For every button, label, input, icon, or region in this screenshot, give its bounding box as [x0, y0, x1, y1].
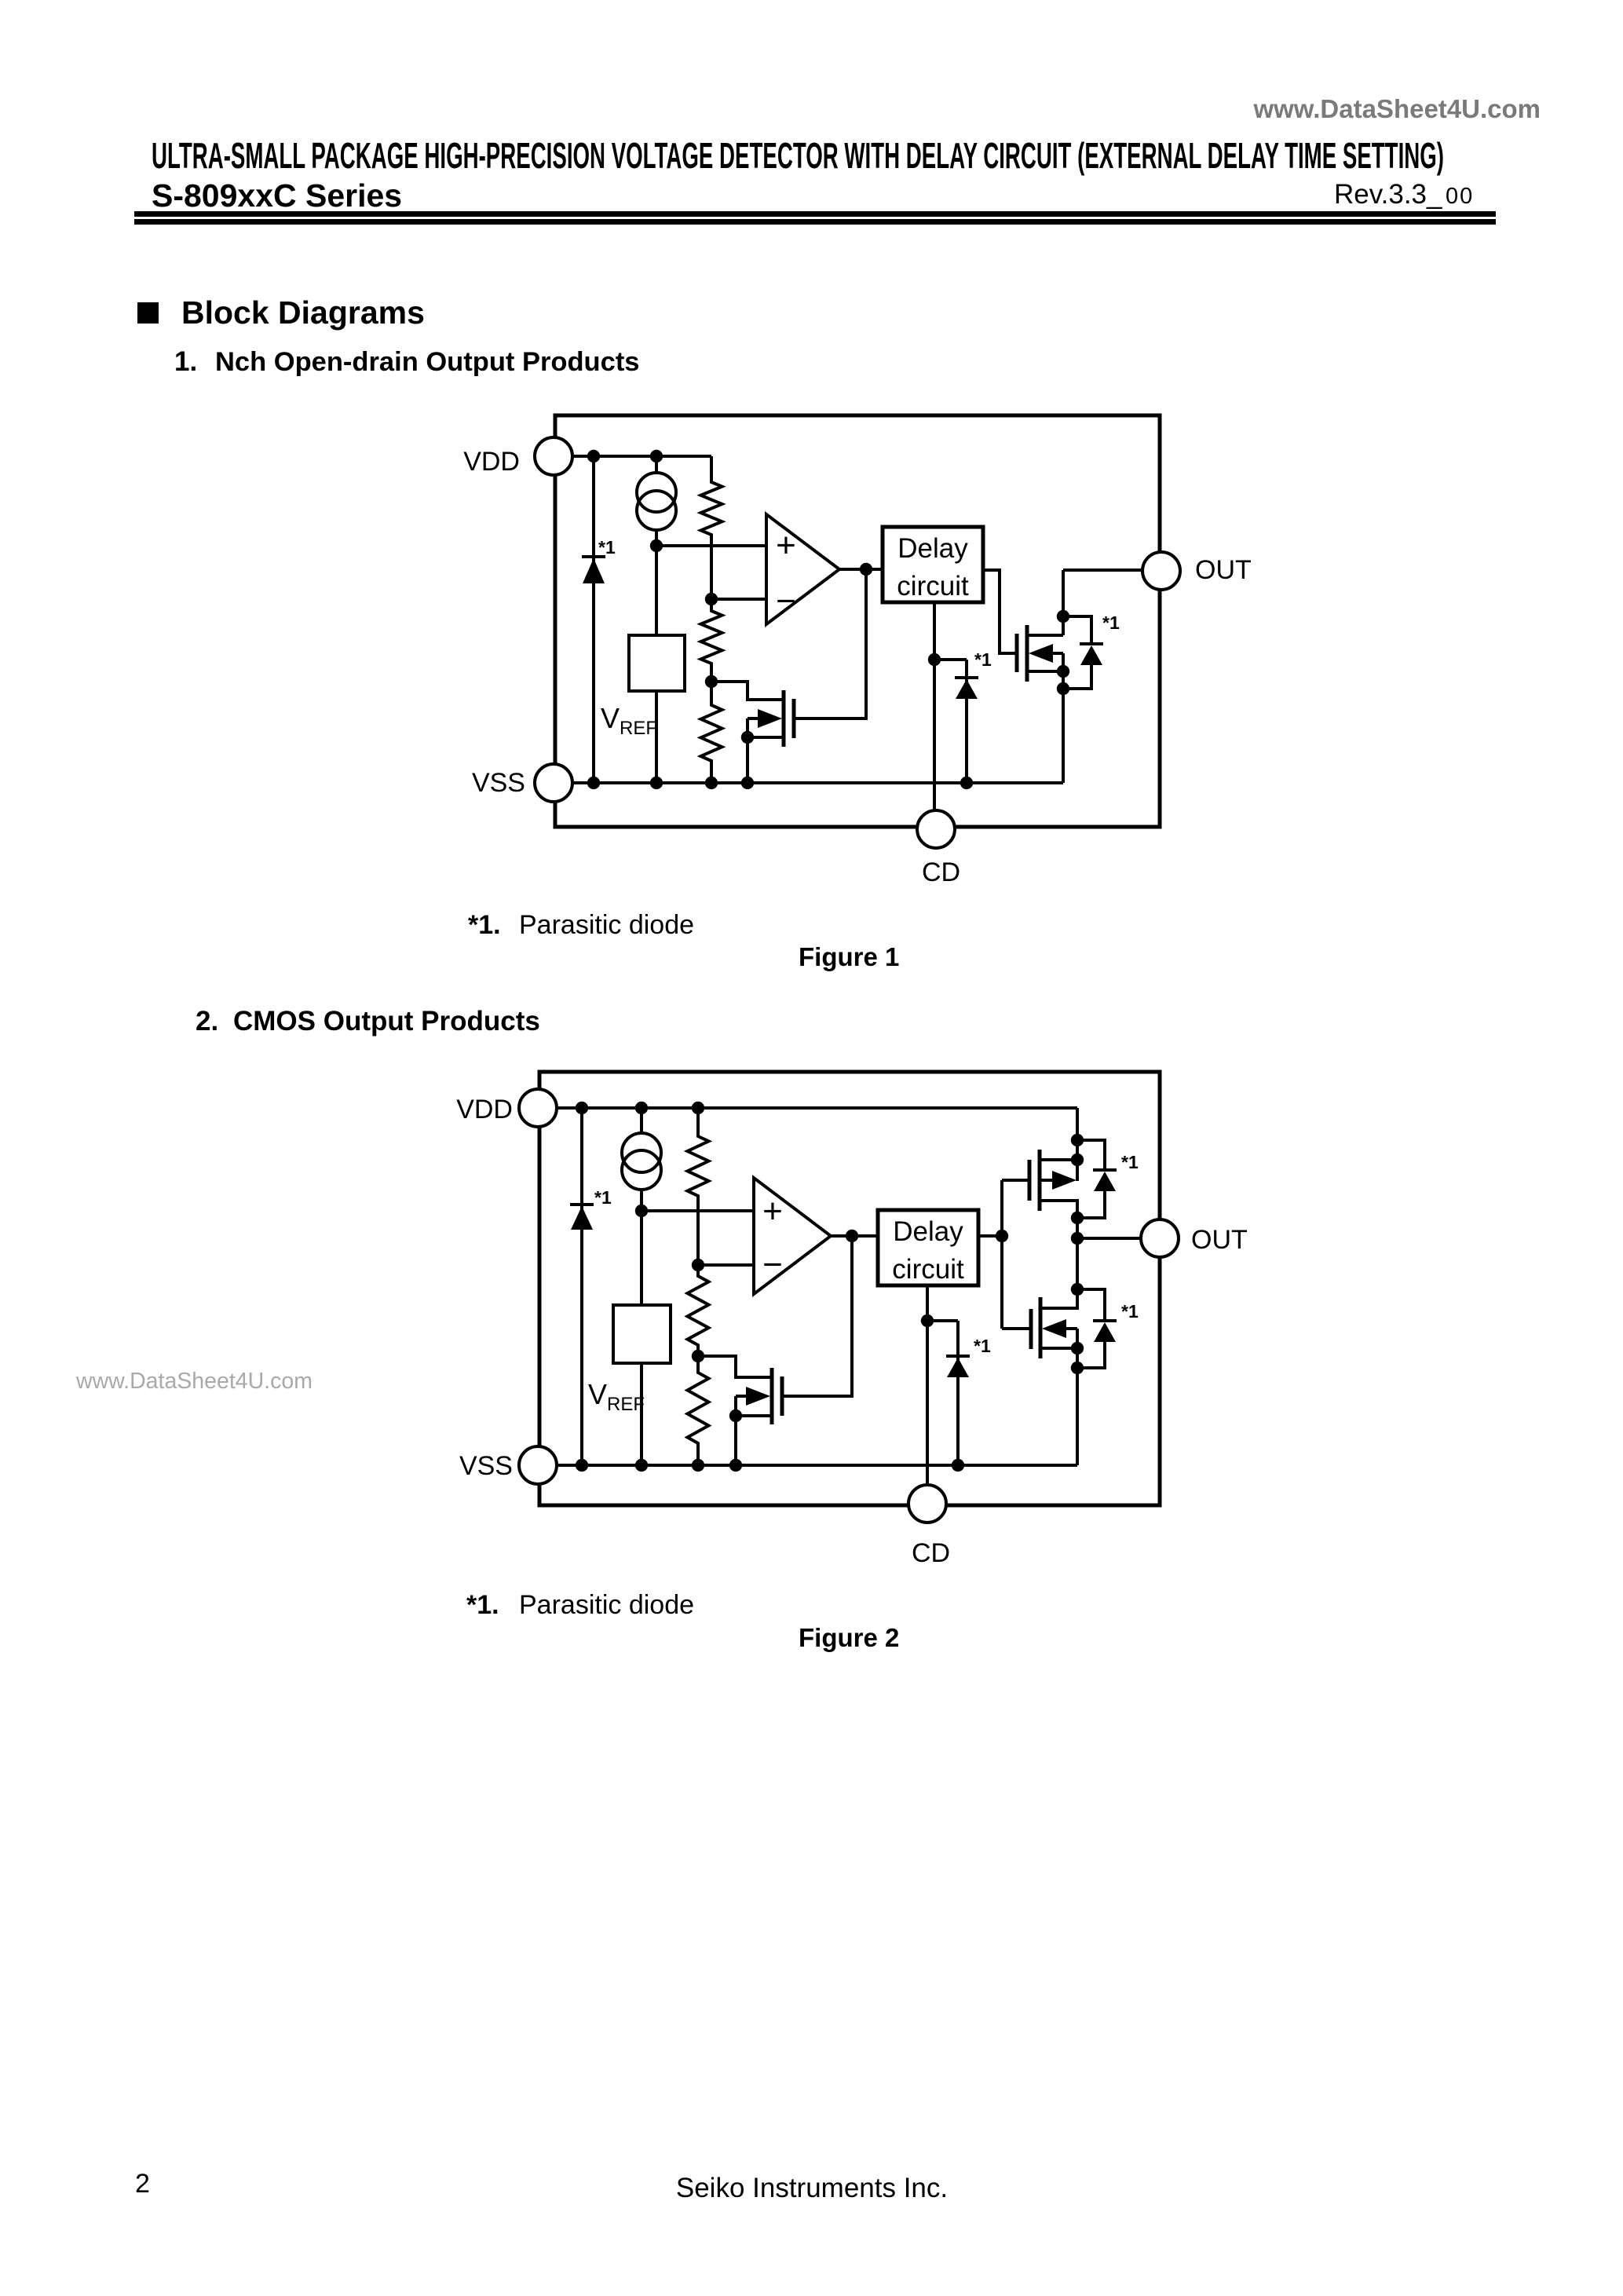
svg-text:OUT: OUT	[1195, 555, 1252, 585]
pin OUT fig2	[1141, 1219, 1179, 1257]
label VSS fig2	[459, 1451, 513, 1481]
svg-text:1.: 1.	[174, 346, 197, 377]
svg-text:2.: 2.	[196, 1006, 218, 1036]
node delay output-gates junction fig2	[996, 1230, 1008, 1242]
pin VSS fig2	[519, 1446, 557, 1484]
diode D6 parasitic (Q4) fig2	[1093, 1170, 1117, 1191]
footer company name	[676, 2173, 948, 2203]
node Q3 source-VSS junction fig2	[729, 1459, 742, 1472]
wire Q1 drain from R2-R3 tap fig1	[711, 682, 782, 700]
label *1 for D4 fig2	[594, 1187, 612, 1208]
wire Q4 parasitic diode branch fig2	[1077, 1140, 1105, 1218]
wire delay output to gates fig2	[978, 1180, 1029, 1329]
transistor Q3 feedback NMOS fig2	[736, 1368, 782, 1465]
svg-text:*1: *1	[1121, 1152, 1139, 1172]
wire delay output to Q2 gate fig1	[983, 570, 1015, 653]
wire delay bottom to CD pin fig2	[926, 1285, 929, 1484]
label VREF fig1	[601, 702, 657, 739]
delay circuit block fig1	[883, 527, 983, 602]
label CD fig2	[912, 1538, 950, 1568]
current source I1 fig1	[637, 473, 676, 530]
node R6-VSS junction fig2	[692, 1459, 704, 1472]
node Q1 source-body tie fig1	[741, 731, 754, 744]
label OUT fig1	[1195, 555, 1252, 585]
node VDD-D1 junction fig1	[587, 450, 600, 462]
svg-text:*1: *1	[594, 1187, 612, 1208]
node Q2 source-diode junction fig1	[1057, 682, 1069, 695]
resistor R3 fig1	[701, 682, 722, 783]
node Q4 source-body tie fig2	[1071, 1153, 1084, 1166]
svg-text:+: +	[776, 526, 796, 565]
node VDD-I2 junction fig2	[635, 1102, 648, 1114]
diode D2 parasitic (CD) fig1	[955, 678, 978, 699]
label *1 for D5 fig2	[974, 1336, 991, 1356]
node R5-R6 tap fig2	[692, 1350, 704, 1362]
label CD fig1	[922, 857, 960, 887]
node R4-R5 tap (minus input) fig2	[692, 1259, 704, 1271]
wire VREF drop fig1	[655, 546, 658, 783]
header revision Rev.3.3_00	[1334, 179, 1474, 210]
svg-text:VDD: VDD	[463, 447, 520, 477]
node VSS-D1 junction fig1	[587, 777, 600, 789]
pin CD fig2	[908, 1485, 946, 1523]
wire Q3 gate from comparator output fig2	[783, 1236, 852, 1396]
svg-text:OUT: OUT	[1191, 1225, 1248, 1255]
IC boundary box figure 2	[539, 1072, 1160, 1505]
footer page number	[135, 2169, 150, 2199]
pin VSS fig1	[535, 764, 572, 802]
label *1 for D2 fig1	[974, 649, 992, 670]
wire Q1 gate from comparator output fig1	[795, 569, 866, 718]
node VDD-R4 junction fig2	[692, 1102, 704, 1114]
label VSS fig1	[472, 768, 525, 798]
wire left diode branch fig1	[592, 456, 595, 783]
node Q1 source-VSS junction fig1	[741, 777, 754, 789]
label *1 for D7 fig2	[1121, 1301, 1139, 1322]
pin VDD fig1	[535, 437, 572, 475]
node Q3 source-body tie fig2	[729, 1409, 742, 1422]
transistor Q1 feedback NMOS fig1	[748, 690, 794, 783]
node VDD-D4 junction fig2	[576, 1102, 588, 1114]
svg-text:V: V	[588, 1378, 607, 1410]
wire VDD rail fig1	[572, 455, 711, 458]
resistor R4 fig2	[688, 1108, 709, 1265]
svg-text:circuit: circuit	[897, 571, 969, 601]
node VDD-I1 junction fig1	[650, 450, 663, 462]
node Q2 drain junction fig1	[1057, 610, 1069, 623]
header title line 1	[152, 135, 1444, 176]
svg-text:www.DataSheet4U.com: www.DataSheet4U.com	[1252, 94, 1541, 123]
op-amp U1 comparator fig1	[766, 514, 839, 624]
wire VREF drop fig2	[640, 1211, 643, 1465]
footnote *1 Parasitic diode (fig1)	[468, 910, 694, 940]
wire VSS rail fig2	[557, 1464, 1077, 1467]
svg-text:+: +	[762, 1192, 783, 1230]
wire comparator output fig2	[831, 1234, 878, 1238]
node R3-VSS junction fig1	[705, 777, 718, 789]
node comparator output junction fig1	[860, 563, 872, 576]
svg-text:VSS: VSS	[459, 1451, 513, 1481]
svg-text:CD: CD	[922, 857, 960, 887]
node Q2 source-body tie fig1	[1057, 665, 1069, 678]
svg-text:S-809xxC Series: S-809xxC Series	[152, 177, 402, 214]
svg-text:Figure 2: Figure 2	[799, 1623, 899, 1652]
node Q4 drain junction fig2	[1071, 1212, 1084, 1224]
wire Q5 parasitic diode branch fig2	[1077, 1289, 1105, 1368]
caption Figure 1	[799, 942, 899, 971]
svg-text:Seiko Instruments Inc.: Seiko Instruments Inc.	[676, 2173, 948, 2203]
node Q5 source-diode junction fig2	[1071, 1362, 1084, 1374]
label *1 for D3 fig1	[1102, 612, 1120, 633]
label VDD fig1	[463, 447, 520, 477]
resistor R1 fig1	[701, 456, 722, 599]
svg-text:Delay: Delay	[893, 1216, 963, 1247]
wire minus input fig1	[711, 598, 766, 601]
node D5-VSS junction fig2	[952, 1459, 964, 1472]
wire VSS rail fig1	[572, 781, 1063, 784]
svg-text:Block Diagrams: Block Diagrams	[181, 294, 425, 331]
node VREF-VSS junction fig2	[635, 1459, 648, 1472]
label VDD fig2	[456, 1095, 513, 1124]
resistor R5 fig2	[688, 1265, 709, 1356]
svg-text:www.DataSheet4U.com: www.DataSheet4U.com	[75, 1369, 313, 1394]
svg-text:CD: CD	[912, 1538, 950, 1568]
wire OUT node vertical fig2	[1076, 1218, 1079, 1289]
wire Q2 parasitic diode branch fig1	[1063, 616, 1091, 689]
svg-text:Rev.3.3_: Rev.3.3_	[1334, 179, 1442, 210]
node delay-CD junction fig2	[921, 1314, 934, 1327]
node comparator output junction fig2	[846, 1230, 858, 1242]
svg-text:REF: REF	[607, 1394, 645, 1415]
resistor R6 fig2	[688, 1356, 709, 1465]
diode D5 parasitic (CD) fig2	[946, 1356, 970, 1377]
svg-text:V: V	[601, 702, 620, 734]
svg-text:−: −	[776, 582, 796, 620]
svg-text:Figure 1: Figure 1	[799, 942, 899, 971]
label VREF fig2	[588, 1378, 645, 1415]
wire OUT node horizontal fig2	[1077, 1237, 1142, 1240]
watermark www.DataSheet4U.com left	[75, 1369, 313, 1394]
wire delay bottom to CD pin fig1	[933, 602, 936, 810]
wire Q3 drain from R5-R6 tap fig2	[698, 1356, 770, 1377]
caption Figure 2	[799, 1623, 899, 1652]
svg-text:*1: *1	[1121, 1301, 1139, 1322]
node Q5 source-body tie fig2	[1071, 1342, 1084, 1355]
wire current source branch fig2	[640, 1108, 643, 1211]
svg-text:VDD: VDD	[456, 1095, 513, 1124]
transistor Q5 output NMOS fig2	[1031, 1289, 1077, 1465]
svg-text:2: 2	[135, 2169, 150, 2199]
node VREF-VSS junction fig1	[650, 777, 663, 789]
svg-text:REF: REF	[620, 718, 657, 739]
diode D3 parasitic (Q2) fig1	[1080, 644, 1103, 665]
node D2-VSS junction fig1	[960, 777, 973, 789]
wire VDD to Q4 source fig2	[1076, 1108, 1079, 1181]
section heading Block Diagrams	[181, 294, 425, 331]
voltage reference VREF box fig2	[613, 1305, 671, 1363]
node R2-R3 tap fig1	[705, 675, 718, 688]
transistor Q4 output PMOS fig2	[1029, 1150, 1077, 1218]
current source I2 fig2	[622, 1133, 661, 1190]
svg-text:Parasitic diode: Parasitic diode	[519, 910, 694, 940]
pin CD fig1	[917, 810, 955, 848]
svg-text:*1.: *1.	[466, 1590, 499, 1620]
voltage reference VREF box fig1	[629, 635, 685, 691]
label OUT fig2	[1191, 1225, 1248, 1255]
wire CD clamp diode branch fig2	[927, 1321, 958, 1465]
svg-text:Parasitic diode: Parasitic diode	[519, 1590, 694, 1620]
svg-text:*1: *1	[974, 649, 992, 670]
wire OUT node fig1	[1063, 569, 1142, 572]
svg-text:ULTRA-SMALL PACKAGE HIGH-PRECI: ULTRA-SMALL PACKAGE HIGH-PRECISION VOLTA…	[152, 135, 1444, 176]
diode D4 parasitic (left) fig2	[570, 1205, 594, 1230]
node Q5 drain-diode junction fig2	[1071, 1283, 1084, 1296]
svg-text:*1: *1	[1102, 612, 1120, 633]
svg-text:CMOS Output Products: CMOS Output Products	[233, 1006, 540, 1036]
svg-text:VSS: VSS	[472, 768, 525, 798]
subheading 1. Nch Open-drain Output Products	[174, 346, 640, 377]
section bullet square	[137, 302, 159, 324]
pin OUT fig1	[1142, 552, 1180, 590]
IC boundary box figure 1	[555, 415, 1160, 827]
wire VDD rail fig2	[557, 1106, 1077, 1110]
wire CD clamp diode branch fig1	[934, 660, 967, 783]
header product name S-809xxC Series	[152, 177, 402, 214]
label *1 for D6 fig2	[1121, 1152, 1139, 1172]
node delay-CD junction fig1	[928, 653, 941, 666]
diode D7 parasitic (Q5) fig2	[1093, 1321, 1117, 1342]
wire comparator output fig1	[839, 568, 883, 571]
node I1 output junction fig1	[650, 539, 663, 552]
footnote *1 Parasitic diode (fig2)	[466, 1590, 694, 1620]
svg-text:Nch Open-drain Output Products: Nch Open-drain Output Products	[215, 347, 640, 377]
node I2 output junction fig2	[635, 1205, 648, 1217]
op-amp U2 comparator fig2	[754, 1178, 831, 1294]
diode D1 parasitic (left) fig1	[582, 557, 605, 583]
svg-text:*1: *1	[598, 537, 616, 558]
svg-text:*1.: *1.	[468, 910, 501, 940]
wire current source branch fig1	[655, 456, 658, 546]
node VDD-D6 junction fig2	[1071, 1134, 1084, 1146]
svg-text:circuit: circuit	[892, 1254, 964, 1285]
node OUT junction fig2	[1071, 1232, 1084, 1245]
svg-text:00: 00	[1446, 184, 1474, 209]
wire minus input fig2	[698, 1263, 754, 1267]
svg-text:*1: *1	[974, 1336, 991, 1356]
transistor Q2 output NMOS fig1	[1017, 570, 1063, 783]
node VSS-D4 junction fig2	[576, 1459, 588, 1472]
svg-text:−: −	[762, 1245, 783, 1284]
wire plus input fig1	[656, 544, 766, 547]
pin VDD fig2	[519, 1089, 557, 1127]
delay circuit block fig2	[878, 1210, 978, 1285]
node R1-R2 tap (minus input) fig1	[705, 593, 718, 605]
label *1 for D1 fig1	[598, 537, 616, 558]
wire plus input fig2	[642, 1209, 754, 1212]
svg-text:Delay: Delay	[897, 533, 968, 564]
header double rule	[134, 211, 1496, 225]
resistor R2 fig1	[701, 599, 722, 682]
wire left diode branch fig2	[580, 1108, 583, 1465]
subheading 2. CMOS Output Products	[196, 1006, 540, 1036]
header url www.DataSheet4U.com	[1252, 94, 1541, 123]
